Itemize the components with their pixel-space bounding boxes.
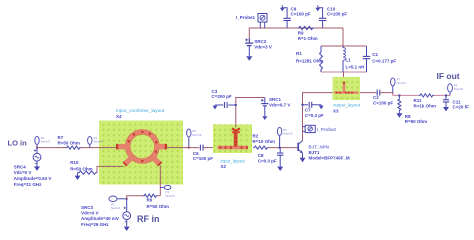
ground <box>319 106 324 110</box>
svg-text:Num=5: Num=5 <box>283 132 293 136</box>
port P3 LO pin <box>35 136 51 148</box>
capacitor C3 <box>212 89 237 110</box>
resistor R10 <box>70 160 97 180</box>
svg-text:Num=2: Num=2 <box>111 206 121 210</box>
svg-text:L1: L1 <box>346 58 352 63</box>
ground <box>280 8 285 12</box>
ground <box>34 167 40 171</box>
svg-text:SRC3: SRC3 <box>81 205 94 210</box>
layout block X2 input_layout <box>213 124 252 169</box>
svg-text:input_combiner_layout: input_combiner_layout <box>116 108 165 114</box>
ground <box>396 113 402 117</box>
svg-text:R2: R2 <box>253 133 259 138</box>
svg-text:R=10 Ohm: R=10 Ohm <box>253 139 275 144</box>
wire ring stub down to RF node <box>159 166 161 196</box>
layout block X4 input_combiner_layout <box>99 108 183 185</box>
wire LO node to R7 <box>37 147 66 149</box>
svg-text:input_layout: input_layout <box>221 158 246 163</box>
ground <box>315 8 320 12</box>
svg-text:Num=6: Num=6 <box>192 133 202 137</box>
capacitor C2 <box>373 90 393 106</box>
port P2 RF pin <box>109 196 128 210</box>
wire tank top rail <box>321 45 367 47</box>
svg-text:C=100 pF: C=100 pF <box>193 156 213 161</box>
ring bottom-left stub <box>124 157 132 165</box>
svg-text:R=50 Ohm: R=50 Ohm <box>147 204 169 209</box>
dc source SRC1 <box>261 97 291 120</box>
svg-text:SRC1: SRC1 <box>269 97 282 102</box>
node P7 pin after C2 <box>391 78 407 93</box>
resistor R6 <box>143 194 169 209</box>
svg-text:Num=2: Num=2 <box>397 81 407 85</box>
svg-text:R=1 Ohm: R=1 Ohm <box>298 36 318 41</box>
svg-text:R=1k Ohm: R=1k Ohm <box>414 104 436 109</box>
capacitor C1 <box>363 46 397 72</box>
resistor R7 <box>58 135 82 149</box>
svg-text:output_layout: output_layout <box>333 102 361 107</box>
svg-text:BJT_NPN: BJT_NPN <box>309 144 330 149</box>
svg-text:BJT1: BJT1 <box>309 150 321 155</box>
svg-text:C=0.177 pF: C=0.177 pF <box>372 59 396 64</box>
resistor R1 <box>296 46 323 72</box>
capacitor C9 <box>280 5 311 28</box>
transistor BJT1 <box>298 141 350 163</box>
wire C2 to IF node <box>380 93 393 96</box>
wire R7 to block <box>81 147 117 149</box>
ring right stub <box>155 144 168 150</box>
ground <box>300 158 306 162</box>
svg-text:I_Probe2: I_Probe2 <box>317 127 337 132</box>
wire supply rail <box>249 28 343 42</box>
svg-text:R1: R1 <box>296 51 302 56</box>
ring left stub <box>116 144 129 150</box>
svg-text:C=0.3 pF: C=0.3 pF <box>305 113 324 118</box>
capacitor C11 <box>443 94 469 111</box>
port P6 pin <box>187 129 202 149</box>
wire collector riser <box>303 93 333 141</box>
svg-text:R7: R7 <box>58 135 64 140</box>
svg-text:C=0.3 pF: C=0.3 pF <box>258 159 277 164</box>
svg-text:Num=5: Num=5 <box>166 194 176 198</box>
svg-text:R=50 Ohm: R=50 Ohm <box>405 119 427 124</box>
resistor R2 <box>253 133 275 149</box>
svg-text:Freq=26 GHz: Freq=26 GHz <box>81 222 109 227</box>
wire bias feed down to X2 <box>236 98 265 128</box>
svg-text:R9: R9 <box>298 31 304 36</box>
svg-text:C7: C7 <box>305 108 311 113</box>
svg-text:R=50 Ohm: R=50 Ohm <box>70 166 92 171</box>
port P4 pin <box>88 136 104 148</box>
svg-text:C1: C1 <box>372 52 378 57</box>
svg-text:Vdc=0.7 V: Vdc=0.7 V <box>269 102 290 107</box>
wire base net <box>269 147 298 149</box>
capacitor C10 <box>315 5 347 28</box>
ground <box>277 167 283 171</box>
svg-text:SRC4: SRC4 <box>14 164 27 169</box>
svg-text:R11: R11 <box>414 98 423 103</box>
svg-text:Amplitude=40 mV: Amplitude=40 mV <box>81 216 119 221</box>
wire ring stub to R10 <box>97 166 124 172</box>
svg-text:Freq=21 GHz: Freq=21 GHz <box>14 182 42 187</box>
svg-text:R=1281 Ohm: R=1281 Ohm <box>296 59 323 64</box>
svg-text:R6: R6 <box>147 198 153 203</box>
capacitor C8 <box>258 148 284 171</box>
svg-text:Num=6: Num=6 <box>454 87 464 91</box>
ground <box>443 107 449 111</box>
svg-text:C=100 pF: C=100 pF <box>373 101 393 106</box>
ground <box>124 227 130 231</box>
ring bottom-right stub <box>152 157 161 165</box>
wire rail corner down to tank <box>342 28 344 46</box>
capacitor C7 <box>302 102 325 118</box>
ground <box>213 106 218 110</box>
svg-text:C9: C9 <box>291 6 297 11</box>
resistor R11 <box>414 94 436 109</box>
capacitor C6 <box>193 145 213 162</box>
source SRC4 <box>14 148 52 187</box>
inductor L1 <box>343 46 364 72</box>
svg-text:C=20 fF: C=20 fF <box>453 105 470 110</box>
svg-text:Vdc=3 V: Vdc=3 V <box>254 45 272 50</box>
svg-text:X3: X3 <box>333 108 339 113</box>
svg-text:R10: R10 <box>70 160 79 165</box>
svg-text:C10: C10 <box>327 6 336 11</box>
svg-text:Vdc=0 V: Vdc=0 V <box>14 170 32 175</box>
svg-text:L=5.1 nH: L=5.1 nH <box>346 65 365 70</box>
wire block to C6 <box>167 147 200 149</box>
ground <box>262 116 267 120</box>
svg-text:C=100 pF: C=100 pF <box>291 12 311 17</box>
svg-text:X4: X4 <box>116 114 122 119</box>
wire R11 to output <box>434 94 450 96</box>
wire tank to output block <box>343 72 345 82</box>
svg-text:C2: C2 <box>373 95 379 100</box>
port P9 IF out pin <box>448 84 464 96</box>
I_Probe2 <box>303 125 337 132</box>
svg-text:I_Probe1: I_Probe1 <box>236 15 256 20</box>
svg-text:Num=3: Num=3 <box>41 140 51 144</box>
svg-text:SRC2: SRC2 <box>254 39 267 44</box>
dc source SRC2 <box>245 38 272 61</box>
wire tank bottom rail <box>321 71 367 73</box>
svg-text:C8: C8 <box>258 153 264 158</box>
svg-text:Vdc=0 V: Vdc=0 V <box>81 211 99 216</box>
port P1 pin <box>160 185 175 198</box>
svg-text:C=100 pF: C=100 pF <box>327 12 347 17</box>
I_Probe1 <box>236 14 267 29</box>
svg-text:RF in: RF in <box>137 214 160 224</box>
ground <box>246 56 252 61</box>
svg-text:C=200 pF: C=200 pF <box>212 94 232 99</box>
source SRC3 <box>81 199 131 231</box>
svg-text:Amplitude=0.63 V: Amplitude=0.63 V <box>14 176 52 181</box>
wire R6 to RF node <box>127 196 143 199</box>
svg-text:Num=4: Num=4 <box>94 140 104 144</box>
svg-text:R=50 Ohm: R=50 Ohm <box>58 140 80 145</box>
svg-text:IF out: IF out <box>437 71 460 81</box>
node P5 pin at base <box>277 127 292 148</box>
resistor R9 <box>298 26 318 41</box>
svg-text:X2: X2 <box>221 164 227 169</box>
ground <box>75 176 81 180</box>
wire X3 to C2 <box>360 92 376 94</box>
rat-race ring <box>125 130 159 164</box>
svg-text:LO in: LO in <box>8 139 28 148</box>
layout block X3 output_layout <box>333 77 361 113</box>
resistor R8 <box>396 94 427 124</box>
svg-text:Model=BFP740F_M: Model=BFP740F_M <box>309 156 350 161</box>
